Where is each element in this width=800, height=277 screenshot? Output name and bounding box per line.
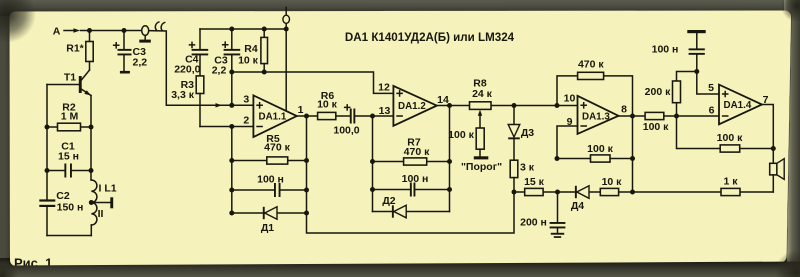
svg-text:8: 8 <box>621 103 627 115</box>
capacitor 100,0 <box>333 104 359 136</box>
junction output DA1.1 <box>304 114 309 119</box>
junction pin3 node <box>229 103 234 108</box>
resistor 1к <box>721 176 740 196</box>
svg-text:470 к: 470 к <box>578 59 604 71</box>
svg-text:"Порог": "Порог" <box>461 161 502 173</box>
svg-text:1 M: 1 M <box>61 111 79 123</box>
junction R7 right <box>447 159 452 164</box>
svg-text:13: 13 <box>379 105 391 117</box>
capacitor 200н <box>520 192 565 233</box>
wire left rail from base <box>46 85 48 236</box>
svg-text:12: 12 <box>378 82 390 94</box>
resistor 15к <box>524 176 545 196</box>
svg-text:DA1 К1401УД2А(Б) или LM324: DA1 К1401УД2А(Б) или LM324 <box>345 31 515 44</box>
ground bar below C3 <box>120 71 130 74</box>
junction 100н right <box>304 188 309 193</box>
speaker <box>770 159 785 192</box>
feedback network DA1.2 left rail <box>372 116 374 212</box>
resistor 100к порог <box>448 128 484 156</box>
resistor R3 <box>171 76 204 127</box>
resistor R1 <box>66 31 93 71</box>
cable break marks <box>155 22 165 31</box>
junction bias R4 <box>262 70 267 75</box>
capacitor 100н feedback DA1.2 <box>373 173 450 196</box>
svg-text:C2: C2 <box>56 190 70 202</box>
capacitor C3 2,2 second <box>212 29 241 77</box>
wire DA1.4 output down <box>762 105 773 164</box>
svg-text:R4: R4 <box>244 43 258 55</box>
junction C3b top <box>229 27 234 32</box>
svg-text:100 н: 100 н <box>257 174 284 186</box>
capacitor 100н supply <box>652 33 705 71</box>
ground symbol below 200н <box>551 233 564 238</box>
wire bias to pin3 <box>231 72 233 105</box>
resistor 100к series <box>643 112 669 132</box>
wire top antenna line <box>81 30 142 32</box>
diode Д4 <box>571 186 589 212</box>
junction R8 output row <box>512 103 517 108</box>
wire mid bias rail <box>232 72 394 93</box>
op-amp U DA1.2 <box>393 86 436 126</box>
capacitor C4 220,0 <box>174 29 208 76</box>
wire power stub to DA1.1 <box>285 29 287 111</box>
svg-text:1 к: 1 к <box>723 176 738 188</box>
svg-text:10 к: 10 к <box>602 176 623 188</box>
terminal bar Порог <box>461 156 502 173</box>
svg-text:A: A <box>53 26 61 38</box>
potentiometer R8 <box>470 78 493 128</box>
svg-text:1: 1 <box>298 104 304 116</box>
svg-text:100,0: 100,0 <box>333 124 359 136</box>
junction R2 right <box>89 125 94 130</box>
junction 100н DA1.2 right <box>447 187 452 192</box>
diode Д3 <box>508 106 534 161</box>
svg-text:24 к: 24 к <box>472 88 493 100</box>
junction pin13 node <box>370 114 375 119</box>
wire cap to DA1.2 pin13 <box>355 115 393 117</box>
wire DA1.3 pin9 to 100к row <box>557 126 578 159</box>
wire DA1.1 output row <box>297 115 350 117</box>
svg-text:15 к: 15 к <box>524 176 545 188</box>
junction L1 tap <box>89 200 94 205</box>
transistor Q T1 <box>47 70 91 96</box>
resistor R4 <box>238 29 267 72</box>
svg-text:I L1: I L1 <box>99 182 117 194</box>
resistor R6 <box>317 90 338 120</box>
svg-text:DA1.1: DA1.1 <box>259 112 287 123</box>
junction R4 top <box>262 27 267 32</box>
svg-text:Д4: Д4 <box>571 200 584 212</box>
resistor 200к <box>645 72 697 117</box>
supply bar top right <box>687 30 705 33</box>
svg-text:100 к: 100 к <box>717 132 743 144</box>
op-amp U DA1.1 <box>253 95 296 137</box>
svg-text:Д2: Д2 <box>382 195 395 207</box>
junction pin2 node <box>229 124 234 129</box>
svg-text:100 к: 100 к <box>448 129 474 141</box>
junction 100н bottom node <box>694 69 699 74</box>
junction R5 right <box>304 158 309 163</box>
wire emitter rail <box>90 96 92 181</box>
feedback 100к DA1.4 <box>677 116 774 152</box>
svg-text:Д3: Д3 <box>521 127 534 139</box>
node A terminal arrow <box>53 26 80 38</box>
junction 3к bottom bus <box>512 190 517 195</box>
svg-text:10 к: 10 к <box>317 98 338 110</box>
svg-text:3,3 к: 3,3 к <box>171 89 195 101</box>
photo corner shadows <box>0 0 36 43</box>
junction 100н left <box>229 188 234 193</box>
junction 15к right <box>555 190 560 195</box>
feedback network DA1.2 right rail <box>449 106 451 212</box>
junction pin10 node <box>555 103 560 108</box>
junction top wire at R1 <box>87 28 92 33</box>
wire to DA1.4 pin5 <box>697 72 719 95</box>
wire top supply rail <box>200 28 286 30</box>
wire DA1.2 output row to DA1.3 pin10 <box>437 105 578 107</box>
junction Д1 left <box>229 211 234 216</box>
photo right edge light streak <box>787 9 800 264</box>
power terminal circle <box>283 8 290 30</box>
junction DA1.2 output <box>447 103 452 108</box>
junction bias C3b <box>229 70 234 75</box>
svg-text:200 н: 200 н <box>520 216 547 228</box>
op-amp U DA1.4 <box>719 85 762 125</box>
svg-text:Д1: Д1 <box>261 222 274 234</box>
resistor R2 <box>47 101 91 131</box>
shield ground bar below connector <box>139 40 151 43</box>
connector terminal circle <box>142 26 149 40</box>
svg-text:2: 2 <box>243 115 249 127</box>
svg-text:470 к: 470 к <box>404 146 430 158</box>
diode Д1 <box>232 207 307 234</box>
wire DA1.3 output row <box>619 115 720 117</box>
svg-text:150 н: 150 н <box>57 201 84 213</box>
resistor R7 <box>373 137 450 165</box>
wire DA1.3 right rail <box>632 116 634 192</box>
junction 100к fb right <box>630 156 635 161</box>
svg-text:R1*: R1* <box>66 43 84 55</box>
junction 100н DA1.2 left <box>370 187 375 192</box>
svg-text:3 к: 3 к <box>520 161 535 173</box>
photo bottom shadow band <box>0 262 800 277</box>
junction DA1.3 output <box>630 114 635 119</box>
svg-text:200 к: 200 к <box>645 86 671 98</box>
wire antenna to DA1.1 pin3 <box>149 31 254 108</box>
svg-text:100 н: 100 н <box>402 173 429 185</box>
svg-text:2,2: 2,2 <box>132 56 147 68</box>
svg-text:10 к: 10 к <box>238 54 259 66</box>
capacitor C1 <box>47 140 91 177</box>
inductor L1 with tap <box>91 180 116 236</box>
junction 100к fb left <box>555 156 560 161</box>
junction Д1 right <box>304 211 309 216</box>
resistor 100к DA1.3 fb <box>557 143 633 162</box>
op-amp U DA1.3 <box>578 96 619 134</box>
svg-text:470 к: 470 к <box>264 142 290 154</box>
resistor 3к <box>510 160 535 192</box>
junction R2 left <box>45 125 50 130</box>
resistor R5 <box>232 133 307 164</box>
feedback network DA1.1 left rail <box>231 127 233 214</box>
svg-text:T1: T1 <box>64 71 76 83</box>
svg-text:DA1.3: DA1.3 <box>582 111 610 122</box>
resistor 10к <box>600 176 622 196</box>
feedback resistor 470к DA1.3 <box>557 59 633 117</box>
svg-text:220,0: 220,0 <box>174 64 200 76</box>
junction top wire at C3 <box>122 28 127 33</box>
junction fb output node <box>771 146 776 151</box>
svg-text:15 н: 15 н <box>58 150 79 162</box>
svg-text:100 к: 100 к <box>643 121 669 133</box>
capacitor C2 <box>39 190 83 214</box>
junction C1 right <box>89 168 94 173</box>
wire output row y192 <box>514 191 773 193</box>
capacitor 100н feedback DA1.1 <box>232 174 307 197</box>
svg-text:3: 3 <box>243 94 249 106</box>
wire tank bottom <box>47 235 91 237</box>
svg-text:100 н: 100 н <box>652 44 679 56</box>
wire DA1.1 pin2 row <box>200 126 253 128</box>
svg-text:2,2: 2,2 <box>212 65 227 77</box>
svg-text:6: 6 <box>709 105 715 117</box>
svg-text:5: 5 <box>708 82 714 94</box>
svg-text:100 к: 100 к <box>587 143 613 155</box>
capacitor C3 2,2 first <box>113 31 147 71</box>
junction pin6 node <box>674 114 679 119</box>
wire bottom bus to 15к node <box>307 192 515 233</box>
junction R7 left <box>370 159 375 164</box>
junction C1 left <box>45 168 50 173</box>
junction rail right end <box>284 27 289 32</box>
feedback network DA1.1 right rail <box>306 116 308 213</box>
diode Д2 <box>373 195 450 218</box>
svg-text:II: II <box>98 208 104 220</box>
junction R5 left <box>229 158 234 163</box>
svg-text:DA1.2: DA1.2 <box>398 101 426 112</box>
svg-text:DA1.4: DA1.4 <box>724 100 752 111</box>
junction 10к row right <box>630 190 635 195</box>
svg-text:14: 14 <box>437 94 449 106</box>
svg-text:10: 10 <box>564 93 576 105</box>
